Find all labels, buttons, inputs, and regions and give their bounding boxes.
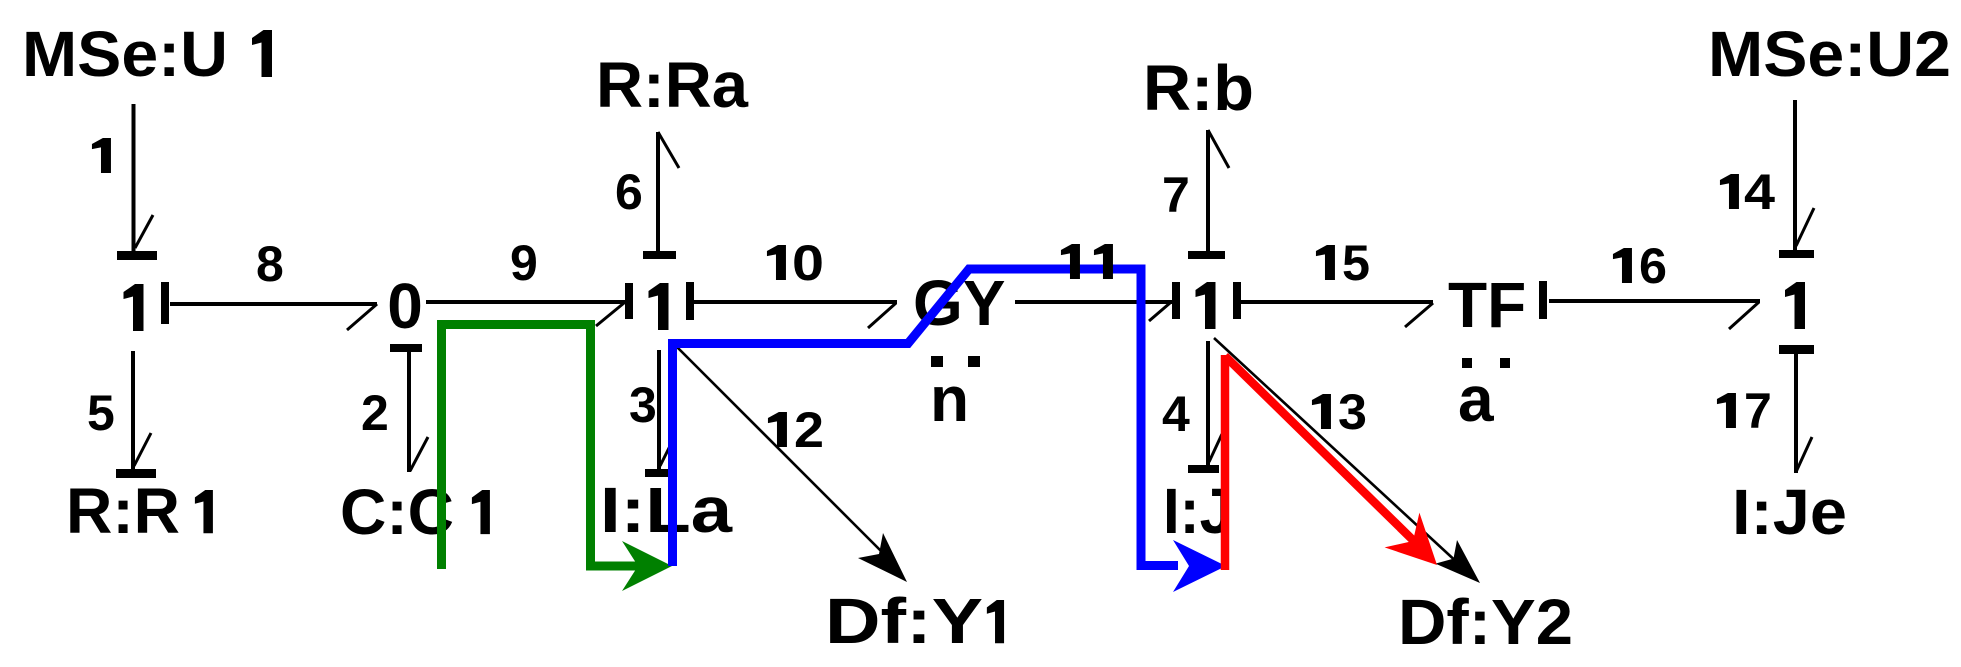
svg-text:0: 0 bbox=[792, 235, 824, 291]
red causal path vertical bbox=[1221, 355, 1230, 570]
bond 2 half-arrow bbox=[410, 437, 428, 471]
bond 14 wire bbox=[1793, 100, 1797, 250]
bond 16 half-arrow bbox=[1729, 302, 1759, 329]
svg-text:4: 4 bbox=[1744, 164, 1775, 220]
bond number 14 bbox=[1720, 174, 1739, 209]
bond 10 half-arrow bbox=[868, 303, 896, 328]
bond 15 wire bbox=[1241, 300, 1433, 304]
bond number 12 bbox=[768, 412, 787, 447]
svg-text:8: 8 bbox=[256, 236, 284, 292]
bond 1 half-arrow bbox=[135, 215, 153, 248]
bond number 10 bbox=[767, 245, 786, 280]
svg-text:7: 7 bbox=[1744, 383, 1772, 439]
bond 12 arrowhead bbox=[858, 533, 907, 582]
red causal path arrowhead bbox=[1385, 513, 1437, 565]
bond 6 half-arrow bbox=[658, 132, 679, 168]
bond 1 wire bbox=[132, 104, 136, 251]
svg-text:R:R: R:R bbox=[66, 475, 180, 547]
svg-text:TF: TF bbox=[1448, 269, 1526, 341]
bond 7 half-arrow bbox=[1208, 130, 1229, 168]
svg-text:5: 5 bbox=[87, 385, 115, 441]
bond 6 causal stroke bbox=[643, 251, 676, 259]
blue causal path arrowhead bbox=[1173, 540, 1226, 592]
bond 17 wire bbox=[1794, 353, 1798, 473]
bond number 17 bbox=[1717, 393, 1736, 428]
bond 4 wire bbox=[1206, 341, 1210, 465]
bond 7 wire bbox=[1206, 130, 1210, 251]
bond 5 half-arrow bbox=[134, 433, 151, 466]
bond 1 causal stroke bbox=[117, 251, 157, 260]
svg-text:R:Ra: R:Ra bbox=[596, 49, 748, 121]
bond 3 half-arrow bbox=[660, 438, 674, 466]
blue causal path bbox=[673, 269, 1179, 566]
bond 8 causal stroke bbox=[161, 282, 169, 324]
bond 11 wire bbox=[1015, 300, 1172, 304]
svg-text:3: 3 bbox=[629, 377, 657, 433]
svg-text:n: n bbox=[930, 363, 969, 435]
svg-text:2: 2 bbox=[361, 385, 389, 441]
bond 2 wire bbox=[407, 352, 411, 472]
bond 6 wire bbox=[656, 132, 660, 251]
bond 8 half-arrow bbox=[347, 304, 377, 330]
bond 12 wire (signal bond to Df:Y1) bbox=[676, 346, 886, 556]
GY modulus dots bbox=[931, 356, 943, 367]
svg-text:9: 9 bbox=[510, 235, 538, 291]
svg-text:Df:Y: Df:Y bbox=[825, 585, 983, 657]
bond 17 causal stroke bbox=[1779, 345, 1814, 354]
bond 7 causal stroke bbox=[1188, 251, 1225, 259]
bond 9 half-arrow bbox=[596, 303, 624, 326]
bond 5 wire bbox=[131, 351, 135, 469]
red causal path diagonal bbox=[1225, 356, 1421, 548]
svg-text:MSe:U2: MSe:U2 bbox=[1708, 18, 1951, 90]
bond 9 wire bbox=[426, 300, 625, 304]
junction 1 (right) bbox=[1785, 282, 1805, 329]
bond 17 half-arrow bbox=[1796, 437, 1812, 472]
TF modulus dots bbox=[1462, 358, 1472, 368]
svg-text:R:b: R:b bbox=[1143, 52, 1254, 124]
bond 2 causal stroke bbox=[390, 344, 422, 352]
bond 16 causal stroke (TF side) bbox=[1539, 281, 1547, 319]
bond 10 causal stroke bbox=[686, 282, 694, 320]
svg-text:0: 0 bbox=[387, 270, 423, 342]
bond 15 half-arrow bbox=[1405, 303, 1433, 327]
bond 14 half-arrow bbox=[1796, 208, 1814, 246]
bond 9 causal stroke bbox=[625, 283, 633, 319]
junction 1 (second) bbox=[649, 283, 669, 330]
svg-text:4: 4 bbox=[1162, 386, 1190, 442]
svg-text:5: 5 bbox=[1342, 235, 1370, 291]
bond 14 causal stroke bbox=[1779, 250, 1814, 258]
svg-text:a: a bbox=[1458, 363, 1494, 435]
bond number 13 bbox=[1312, 394, 1331, 429]
green causal path arrowhead bbox=[622, 541, 672, 591]
bond 13 arrowhead bbox=[1435, 540, 1480, 583]
junction 1 (left) bbox=[124, 284, 144, 331]
bond 11 causal stroke bbox=[1172, 282, 1180, 319]
bond 11 half-arrow bbox=[1149, 303, 1170, 321]
svg-text:3: 3 bbox=[1338, 384, 1367, 440]
svg-text:2: 2 bbox=[794, 402, 824, 458]
svg-text:Df:Y2: Df:Y2 bbox=[1398, 586, 1573, 658]
bond 5 causal stroke bbox=[116, 469, 156, 478]
bond number 11 bbox=[1061, 244, 1080, 279]
bond 15 causal stroke bbox=[1233, 282, 1241, 319]
bond 8 wire bbox=[170, 302, 377, 306]
svg-text:6: 6 bbox=[1639, 238, 1667, 294]
bond number 15 bbox=[1316, 245, 1335, 280]
bond 3 causal stroke bbox=[645, 469, 673, 477]
bond number 16 bbox=[1613, 248, 1632, 283]
bond number 1 bbox=[92, 138, 111, 173]
svg-text:C:C: C:C bbox=[340, 476, 454, 548]
svg-text:I:La: I:La bbox=[600, 474, 732, 546]
bond 3 wire bbox=[657, 350, 661, 469]
bond 16 wire bbox=[1549, 299, 1760, 303]
green causal path bbox=[442, 325, 645, 570]
bond 10 wire bbox=[693, 300, 897, 304]
bond 13 wire (signal bond to Df:Y2) bbox=[1214, 338, 1460, 565]
svg-text:7: 7 bbox=[1162, 167, 1190, 223]
svg-text:6: 6 bbox=[615, 164, 643, 220]
junction 1 (third) bbox=[1196, 282, 1216, 329]
bond 4 causal stroke bbox=[1188, 465, 1219, 473]
svg-text:I:Je: I:Je bbox=[1732, 476, 1847, 548]
svg-text:MSe:U: MSe:U bbox=[22, 18, 228, 90]
bond 4 half-arrow bbox=[1209, 434, 1222, 462]
